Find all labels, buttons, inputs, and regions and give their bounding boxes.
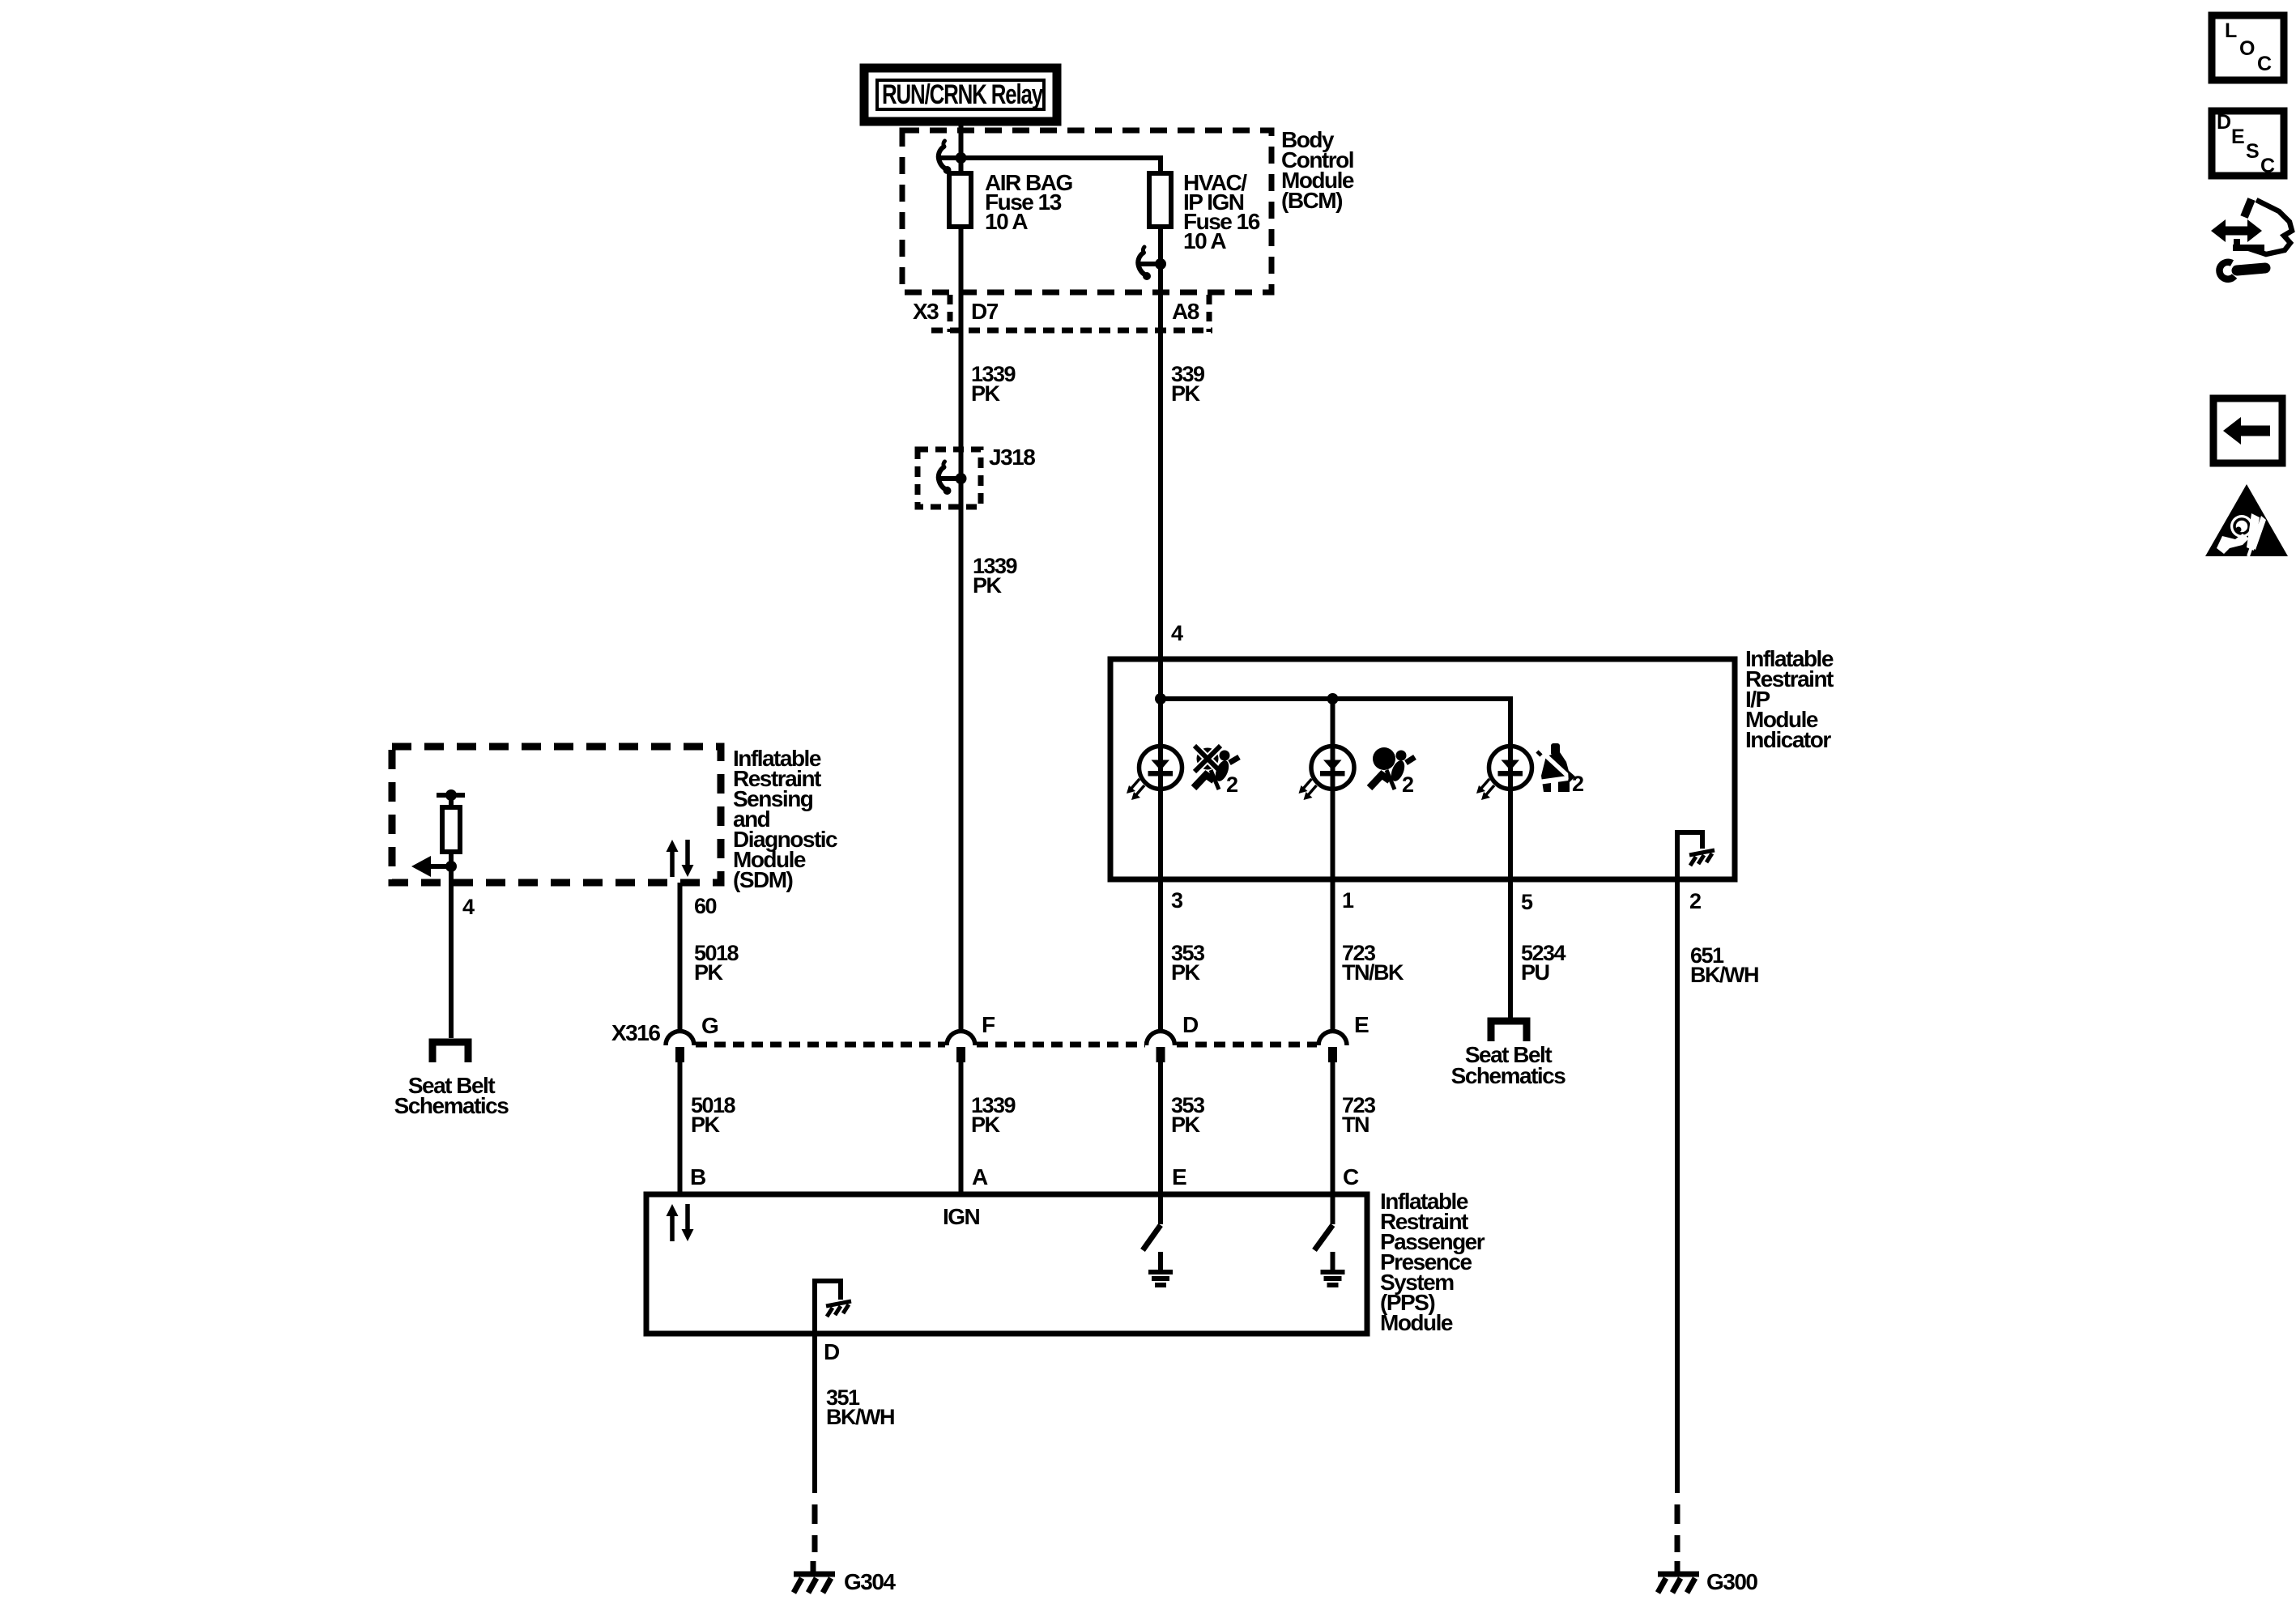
- connector X316 dashed line segment F-D: [977, 1042, 1145, 1048]
- svg-text:D: D: [2217, 111, 2230, 134]
- svg-text:F: F: [982, 1012, 995, 1037]
- fuse F13 AIR BAG: [949, 173, 971, 227]
- bidirectional arrows symbol PPS: [667, 1204, 694, 1241]
- LED indicator lamp 2: [1299, 747, 1355, 801]
- switch to ground at pin C: [1314, 1197, 1345, 1285]
- wire SDM pin 60 (circuit 5018): [678, 883, 683, 1030]
- svg-text:PU: PU: [1521, 960, 1549, 985]
- airbag pictogram icon 2: [1370, 747, 1415, 789]
- wire dashed to G304: [812, 1504, 818, 1552]
- wire X316 E to PPS C: [1331, 1061, 1335, 1194]
- relay label box RUN/CRNK Relay: [864, 68, 1057, 121]
- wire BCM internal bus to fuse 16: [961, 158, 1161, 173]
- wire from RUN/CRNK relay through BCM (circuit 1339): [959, 120, 964, 1030]
- svg-text:E: E: [2231, 126, 2244, 148]
- svg-text:TN/BK: TN/BK: [1342, 960, 1404, 985]
- node junction dot fuse 13 feed: [956, 152, 967, 164]
- connector X3 strip separator left: [948, 295, 953, 332]
- connector X316 cavity F arc: [947, 1032, 975, 1063]
- svg-text:10 A: 10 A: [985, 209, 1028, 234]
- node junction dot fuse 16 output: [1155, 258, 1166, 270]
- wire X316 D to PPS E: [1158, 1061, 1163, 1194]
- schematic navigation icon arrows and wrench: [2211, 199, 2292, 279]
- svg-text:TN: TN: [1342, 1113, 1369, 1137]
- LED indicator lamp 1: [1127, 747, 1182, 801]
- svg-text:C: C: [1343, 1164, 1359, 1189]
- svg-text:E: E: [1354, 1012, 1369, 1037]
- svg-text:PK: PK: [1171, 960, 1201, 985]
- connector X316 dashed line segment D-E: [1177, 1042, 1317, 1048]
- svg-text:(SDM): (SDM): [733, 867, 793, 892]
- svg-text:A: A: [972, 1164, 988, 1189]
- svg-text:IGN: IGN: [943, 1204, 980, 1229]
- hook splice symbol at fuse 16 output: [1138, 247, 1161, 280]
- svg-text:2: 2: [1226, 772, 1237, 797]
- svg-text:60: 60: [694, 894, 717, 918]
- svg-text:D: D: [824, 1339, 840, 1364]
- svg-text:4: 4: [462, 895, 475, 919]
- svg-text:PK: PK: [971, 1113, 1001, 1137]
- node junction dot SDM resistor top: [445, 789, 457, 801]
- svg-text:2: 2: [1689, 889, 1701, 913]
- svg-text:PK: PK: [1171, 1113, 1201, 1137]
- off-page connector bracket seat belt right: [1491, 1021, 1527, 1041]
- svg-text:O: O: [2239, 37, 2255, 60]
- hook splice symbol in BCM at fuse 13 feed: [939, 141, 961, 174]
- svg-text:A8: A8: [1172, 299, 1199, 324]
- node tick bar SDM top: [437, 793, 465, 798]
- svg-text:Schematics: Schematics: [1451, 1063, 1566, 1088]
- switch to ground at pin E: [1143, 1197, 1173, 1285]
- airbag-off pictogram icon 1: [1194, 746, 1239, 789]
- wire X316 F to PPS A: [959, 1061, 964, 1194]
- PPS module box: [646, 1194, 1367, 1334]
- svg-text:10 A: 10 A: [1183, 228, 1226, 253]
- airbag warning triangle icon: [2205, 484, 2288, 556]
- wire PPS D to G304 (circuit 351): [812, 1334, 817, 1493]
- connector X316 cavity G arc: [666, 1032, 694, 1063]
- wire X316 G to PPS B: [678, 1061, 683, 1194]
- connector X3 strip bottom dashed line: [931, 328, 1212, 334]
- wire pin 2 to G300 (circuit 651): [1675, 879, 1680, 1493]
- svg-text:G300: G300: [1706, 1569, 1757, 1594]
- svg-text:C: C: [2260, 155, 2275, 177]
- svg-text:Schematics: Schematics: [394, 1093, 509, 1118]
- svg-text:RUN/CRNK Relay: RUN/CRNK Relay: [882, 79, 1043, 110]
- svg-text:D7: D7: [971, 299, 999, 324]
- bidirectional arrows symbol SDM: [667, 840, 694, 877]
- svg-text:PK: PK: [691, 1113, 721, 1137]
- Inflatable Restraint I/P Module Indicator box: [1110, 659, 1735, 879]
- svg-text:PK: PK: [973, 573, 1003, 598]
- LOC icon box: [2212, 15, 2284, 80]
- hook splice symbol J318: [939, 462, 961, 495]
- node junction dot bus at lamp 1: [1155, 693, 1166, 704]
- node junction dot J318: [956, 473, 967, 484]
- wire dashed to G300: [1675, 1504, 1680, 1552]
- LED indicator lamp 3: [1476, 747, 1532, 801]
- svg-text:S: S: [2246, 140, 2259, 163]
- node junction dot SDM arrow: [445, 861, 457, 872]
- wire fuse 16 to BCM pin A8 (circuit 339): [1158, 173, 1163, 1031]
- svg-text:PK: PK: [1171, 381, 1201, 406]
- svg-text:X3: X3: [913, 299, 939, 324]
- svg-text:4: 4: [1171, 621, 1183, 645]
- svg-text:X316: X316: [611, 1020, 660, 1045]
- connector X316 dashed line segment G-F: [696, 1042, 945, 1048]
- connector X316 cavity E arc: [1318, 1032, 1347, 1063]
- ground G300: [1658, 1561, 1699, 1593]
- svg-text:G304: G304: [844, 1569, 896, 1594]
- wire indicator internal bus: [1161, 699, 1510, 879]
- svg-text:BK/WH: BK/WH: [826, 1405, 894, 1429]
- svg-text:2: 2: [1402, 772, 1413, 797]
- off-page connector bracket seat belt left: [432, 1042, 468, 1062]
- seat belt pictogram icon 3: [1537, 743, 1575, 792]
- svg-text:5: 5: [1521, 890, 1533, 914]
- svg-text:Module: Module: [1380, 1310, 1453, 1335]
- connector X316 cavity D arc: [1147, 1032, 1175, 1063]
- wire to left arrow: [430, 864, 451, 869]
- back arrow icon box: [2213, 398, 2282, 463]
- wire SDM resistor chain: [449, 795, 454, 1038]
- svg-text:PK: PK: [694, 960, 724, 985]
- wire lamp 2 branch: [1331, 699, 1335, 1031]
- connector X3 strip separator right: [1207, 295, 1212, 332]
- resistor element in SDM: [442, 807, 460, 852]
- ground symbol inside indicator module pin 2: [1677, 832, 1715, 879]
- svg-text:G: G: [701, 1013, 718, 1038]
- svg-text:PK: PK: [971, 381, 1001, 406]
- svg-text:2: 2: [1572, 772, 1583, 796]
- DESC icon box: [2212, 111, 2284, 177]
- svg-text:C: C: [2257, 53, 2272, 75]
- ground symbol inside PPS pin D: [815, 1281, 851, 1331]
- wire pin 5 to seat belt schematics: [1508, 879, 1513, 1019]
- svg-text:BK/WH: BK/WH: [1690, 963, 1758, 987]
- node junction dot bus at lamp 2: [1327, 693, 1339, 704]
- svg-text:3: 3: [1171, 888, 1183, 913]
- svg-text:J318: J318: [989, 445, 1035, 470]
- svg-text:B: B: [690, 1164, 705, 1189]
- svg-text:1: 1: [1342, 888, 1354, 913]
- svg-text:Indicator: Indicator: [1745, 727, 1831, 752]
- svg-text:L: L: [2225, 19, 2237, 42]
- splice J318 dashed box: [918, 449, 981, 507]
- Body Control Module (BCM) dashed box: [902, 130, 1272, 292]
- svg-text:E: E: [1172, 1164, 1186, 1189]
- ground G304: [794, 1561, 835, 1593]
- arrow head pointing left: [411, 856, 431, 877]
- svg-text:D: D: [1182, 1012, 1199, 1037]
- SDM dashed box Inflatable Restraint Sensing and Diagnostic Module: [392, 747, 721, 883]
- fuse F16 HVAC/IP IGN: [1149, 173, 1171, 227]
- svg-text:(BCM): (BCM): [1281, 188, 1342, 213]
